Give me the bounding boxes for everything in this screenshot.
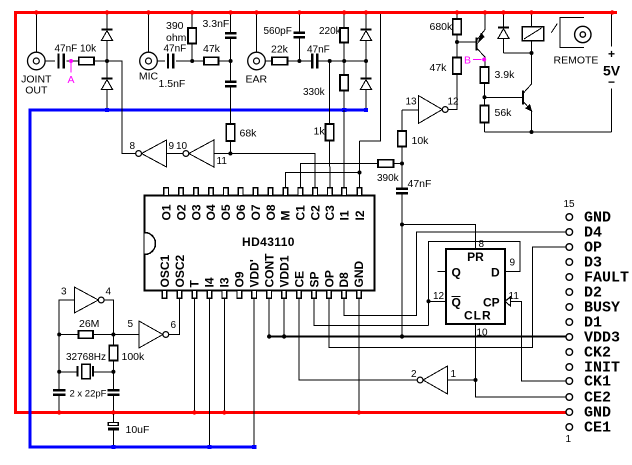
crystal 32768Hz [59, 371, 77, 373]
junction red at 22pF left [57, 410, 61, 414]
wire 26M to inverter 5 [93, 334, 139, 336]
svg-text:CP: CP [483, 296, 500, 310]
svg-text:1.5nF: 1.5nF [159, 78, 186, 90]
node 680k-47k-base [455, 40, 459, 44]
capacitor 22pF right [112, 372, 114, 390]
svg-text:SP: SP [307, 271, 321, 287]
svg-text:32768Hz: 32768Hz [66, 352, 106, 363]
svg-text:2 x 22pF: 2 x 22pF [70, 389, 107, 400]
inverter U3a (pins 3-4) [74, 287, 98, 313]
svg-text:M: M [279, 211, 293, 221]
wire JOINT OUT to red rail [35, 14, 37, 52]
svg-text:9: 9 [510, 258, 516, 269]
svg-text:2: 2 [411, 369, 417, 380]
wire GND pin to red rail [358, 298, 360, 411]
wire node down to VDD3 line [401, 225, 403, 338]
junction red at JOINT OUT [34, 10, 38, 14]
junction blue end at ear clamp [364, 108, 368, 112]
svg-text:HD43110: HD43110 [242, 235, 295, 249]
resistor 3.9k [480, 67, 488, 83]
wire pin4 output loop [104, 300, 113, 335]
wire MIC to red rail [148, 14, 150, 52]
node 47nF to PR/VDD3 [400, 223, 404, 227]
flip-flop U4 [446, 249, 505, 324]
resistor 10k [79, 57, 94, 65]
svg-text:O2: O2 [174, 204, 188, 220]
svg-text:O5: O5 [219, 204, 233, 220]
wire pin9 to pin10 [167, 153, 184, 155]
node Qbar junction [427, 299, 431, 303]
svg-text:330k: 330k [303, 87, 326, 98]
resistor 220k [343, 14, 345, 28]
node mic coupling [190, 59, 194, 63]
junction red at 3.3nF [228, 10, 232, 14]
junction red at 680k [455, 10, 459, 14]
junction red at 560pF [297, 10, 301, 14]
junction red at 5V [610, 10, 614, 14]
wire CONT to VDD3 line [268, 298, 270, 335]
svg-text:15: 15 [564, 199, 576, 210]
svg-text:I3: I3 [218, 277, 232, 287]
resistor 100k [112, 335, 114, 346]
resistor 330k [343, 61, 345, 75]
svg-text:5: 5 [128, 319, 134, 330]
svg-text:47nF: 47nF [55, 44, 78, 55]
svg-text:OUT: OUT [25, 85, 48, 97]
svg-text:1: 1 [566, 434, 572, 445]
junction red at EAR [254, 10, 258, 14]
inverter U3b (pins 5-6) [139, 321, 163, 348]
wire 10k to inverter 13 input [402, 109, 418, 111]
junction blue at 10uF [111, 445, 115, 449]
wire EAR to 22k [265, 60, 272, 62]
svg-text:B: B [464, 55, 471, 67]
node 220k-330k [342, 59, 346, 63]
node 10k-47nF junction [400, 162, 404, 166]
node 47nF on VDD3 [400, 334, 404, 338]
svg-text:EAR: EAR [246, 74, 268, 86]
svg-text:T: T [188, 280, 202, 288]
svg-text:560pF: 560pF [264, 26, 292, 37]
svg-text:22k: 22k [271, 44, 289, 56]
svg-text:OP: OP [322, 270, 336, 287]
junction red at I3 [222, 410, 226, 414]
svg-text:10k: 10k [412, 135, 430, 147]
wire C1 to 390k [300, 164, 378, 189]
junction red at 22pF right [111, 410, 115, 414]
wire VDD3 bold line [269, 335, 566, 337]
diode clamp lower (joint) [106, 61, 108, 78]
node osc right [111, 333, 115, 337]
wire M feed [285, 173, 359, 189]
svg-text:3.9k: 3.9k [495, 69, 516, 81]
wire 47k to filter node [219, 60, 231, 62]
svg-text:1: 1 [451, 369, 457, 380]
svg-text:MIC: MIC [139, 71, 159, 83]
svg-text:I1: I1 [338, 210, 352, 220]
diode clamp upper (joint) [106, 14, 108, 29]
wire inverter input [448, 379, 476, 381]
svg-text:O6: O6 [234, 204, 248, 220]
junction blue at 330k [342, 108, 346, 112]
wire SP to Q-bar net [314, 298, 429, 325]
node osc left [57, 333, 61, 337]
svg-text:47nF: 47nF [307, 45, 330, 56]
svg-text:ohm: ohm [166, 32, 187, 44]
wire node to CE2 terminal [476, 380, 567, 397]
resistor 47k (bias) [453, 58, 461, 75]
wire red rail to M/I2 net [360, 14, 381, 141]
node CLR-CE2-inverter [474, 378, 478, 382]
junction red at ear clamp [364, 10, 368, 14]
node 1k riser [328, 59, 332, 63]
resistor 22k [272, 57, 288, 65]
svg-text:O3: O3 [189, 204, 203, 220]
svg-text:CONT: CONT [263, 253, 277, 288]
resistor 10k (fb) [401, 147, 403, 164]
node filter [229, 59, 233, 63]
wire pin3 input loop [59, 300, 74, 335]
svg-text:REMOTE: REMOTE [554, 55, 599, 67]
svg-text:47nF: 47nF [408, 178, 432, 190]
battery 5V supply [611, 14, 613, 47]
inverter U1a (pins 9-8) [142, 140, 167, 167]
svg-text:390k: 390k [377, 173, 400, 184]
svg-text:47nF: 47nF [164, 44, 187, 55]
svg-text:13: 13 [406, 97, 418, 108]
svg-text:10: 10 [176, 141, 188, 152]
node 68k junction [228, 152, 232, 156]
junction red at MIC [146, 10, 150, 14]
wire blue rail (top, left, bottom) [30, 110, 366, 447]
wire base Q1 [457, 41, 476, 43]
capacitor 1.5nF [230, 61, 232, 82]
svg-text:9: 9 [169, 141, 175, 152]
wire CLR down to CE2 node [475, 324, 477, 380]
resistor 390 ohm [191, 14, 193, 28]
svg-text:56k: 56k [495, 107, 513, 119]
svg-text:8: 8 [479, 239, 485, 250]
svg-text:6: 6 [171, 320, 177, 331]
svg-text:Q: Q [452, 266, 461, 280]
svg-text:3.3nF: 3.3nF [203, 18, 230, 30]
wire clamp node to inverter 8 output [107, 61, 136, 154]
wire C1 to node A to R1 [67, 60, 79, 62]
inverter U1b (pins 11-10) [189, 140, 214, 167]
svg-text:−: − [608, 75, 615, 89]
capacitor 47nF (ear) [311, 54, 313, 69]
wire cap to 390ohm node [176, 60, 192, 62]
svg-text:C2: C2 [309, 205, 323, 221]
resistor 390k [378, 160, 394, 168]
wire Q stub [438, 271, 447, 273]
wire pin11 to C2 pin of IC [214, 154, 315, 189]
node emitter-rail [530, 130, 534, 134]
capacitor 3.3nF [230, 14, 232, 33]
wire 47nF to 1k node [317, 60, 366, 62]
junction red at 220k [342, 10, 346, 14]
wire mic node to 47k [192, 60, 204, 62]
svg-text:O7: O7 [249, 204, 263, 220]
node crystal right [111, 370, 115, 374]
wire D8 pin to D4 terminal [344, 232, 566, 315]
svg-text:CE1: CE1 [584, 420, 611, 437]
wire 390k to 10k node [394, 163, 403, 165]
svg-text:C3: C3 [323, 205, 337, 221]
svg-text:47k: 47k [430, 62, 448, 74]
node diode clamp junction [105, 59, 109, 63]
node CONT on VDD3 [267, 334, 271, 338]
svg-text:11: 11 [509, 291, 520, 302]
wire MIC to C2cap [157, 60, 165, 62]
wire OSC2 to inverter 6 [169, 298, 180, 334]
wire Qbar to D feedback [429, 300, 447, 302]
diode clamp lower (ear) [365, 61, 367, 78]
resistor 26M [79, 331, 94, 339]
resistor 680k [456, 14, 458, 19]
svg-text:GND: GND [352, 261, 366, 288]
svg-text:I4: I4 [203, 277, 217, 287]
transistor Q2 (NPN) [522, 91, 524, 105]
connector MIC [140, 52, 158, 70]
junction red at relay diode [501, 10, 505, 14]
svg-text:I2: I2 [353, 210, 367, 220]
svg-text:8: 8 [130, 141, 136, 152]
svg-text:O8: O8 [264, 204, 278, 220]
svg-text:10: 10 [477, 328, 489, 339]
wire JOINT OUT to C1 [45, 60, 55, 62]
transistor Q1 (PNP) [475, 38, 477, 51]
svg-text:A: A [67, 74, 74, 86]
wire T to red rail [193, 298, 195, 411]
node 560pF [297, 59, 301, 63]
wire OP pin to OP terminal [329, 247, 566, 348]
svg-text:D8: D8 [337, 272, 351, 288]
svg-text:10k: 10k [80, 44, 97, 55]
svg-text:26M: 26M [79, 318, 99, 330]
junction red at Q1 emitter [483, 10, 487, 14]
wire osc left to 26M [59, 334, 78, 336]
svg-text:12: 12 [433, 291, 445, 302]
connector JOINT OUT [28, 52, 46, 70]
svg-text:100k: 100k [122, 351, 146, 363]
wire 3.9k to base node [484, 83, 486, 106]
node A (magenta) [69, 59, 73, 63]
diode relay clamp [503, 14, 505, 27]
svg-text:11: 11 [217, 156, 228, 167]
node crystal left [57, 370, 61, 374]
junction red at relay [529, 10, 533, 14]
svg-text:C1: C1 [294, 205, 308, 221]
svg-text:D: D [491, 266, 500, 280]
capacitor 560pF [298, 14, 300, 33]
svg-text:CE: CE [292, 271, 306, 288]
capacitor 47nF (mic) [167, 54, 169, 69]
wire I4 to blue rail [208, 298, 210, 445]
junction blue at clamp [105, 108, 109, 112]
svg-text:OSC1: OSC1 [158, 254, 172, 287]
wire pin12 to 47k [448, 74, 457, 110]
resistor 56k [480, 106, 488, 123]
junction red at T [192, 410, 196, 414]
inverter U1c (pins 13-12) [418, 96, 442, 124]
capacitor 10uF electrolytic [112, 414, 114, 423]
wire 330k node to IC pin I1 [343, 110, 345, 188]
svg-text:4: 4 [106, 287, 112, 298]
node relay bottom [530, 51, 534, 55]
junction blue at VDD' [252, 445, 256, 449]
connector EAR [248, 52, 266, 70]
wire 22k to 560pF node [288, 60, 312, 62]
svg-text:O4: O4 [204, 204, 218, 220]
wire emitter rail [485, 131, 612, 133]
resistor 47k (mic) [204, 57, 219, 65]
IC U2 HD43110 [145, 196, 375, 291]
svg-text:O1: O1 [160, 204, 174, 220]
svg-text:3: 3 [61, 287, 67, 298]
wire R1 to diode node [94, 60, 107, 62]
diode clamp upper (ear) [365, 14, 367, 29]
capacitor 22pF left [58, 335, 60, 391]
svg-text:OSC2: OSC2 [173, 254, 187, 287]
junction blue at I4 [207, 445, 211, 449]
svg-text:47k: 47k [203, 43, 221, 55]
resistor 1k [329, 61, 331, 124]
connector REMOTE [551, 24, 557, 33]
svg-text:68k: 68k [240, 128, 258, 140]
resistor 68k [226, 124, 234, 141]
junction red at clamp [105, 10, 109, 14]
svg-text:Q: Q [452, 296, 461, 310]
svg-text:220k: 220k [319, 26, 342, 37]
svg-text:1k: 1k [314, 126, 326, 138]
wire base Q2 [485, 96, 524, 98]
node ear clamp [364, 59, 368, 63]
capacitor 47nF (cont) [401, 164, 403, 189]
svg-text:CLR: CLR [464, 309, 492, 323]
svg-text:390: 390 [166, 20, 184, 32]
wire EAR to red rail [256, 14, 258, 52]
node VDD1 on VDD3 [282, 334, 286, 338]
wire CE to inverter 2 output [299, 298, 419, 380]
node Q2 base junction [483, 95, 487, 99]
wire diode to relay bottom [504, 52, 532, 54]
inverter U1d (pins 2-1) [423, 366, 448, 394]
junction red at GND pin [357, 410, 361, 414]
svg-text:+: + [608, 47, 615, 61]
relay K1 [531, 14, 533, 27]
svg-text:CK1: CK1 [584, 374, 611, 391]
wire CP to CK1 terminal [511, 301, 567, 381]
wire VDD' to blue rail [253, 298, 255, 445]
capacitor 47nF (joint out) [57, 54, 59, 69]
wire node to flip-flop PR [402, 225, 476, 250]
node M-I2 junction [358, 171, 362, 175]
wire I3 to red rail [223, 298, 225, 411]
svg-text:680k: 680k [430, 21, 454, 33]
junction red at 390ohm [190, 10, 194, 14]
svg-text:O9: O9 [233, 271, 247, 287]
wire I2 riser [359, 141, 361, 188]
svg-text:VDD': VDD' [248, 259, 262, 287]
svg-text:10uF: 10uF [126, 424, 150, 436]
svg-text:VDD1: VDD1 [277, 255, 291, 287]
svg-text:PR: PR [467, 250, 484, 264]
wire VDD1 to VDD3 line [283, 298, 285, 335]
